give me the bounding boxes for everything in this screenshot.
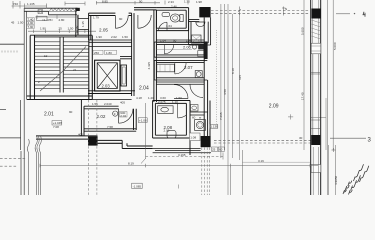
svg-text:1.79: 1.79 — [93, 16, 99, 20]
grid: line 3 callout right — [330, 137, 366, 139]
grid: dashed vertical pair through C2 — [88, 100, 97, 195]
corridor lower: walls y96-99.5 right of stairs — [92, 99, 131, 101]
dimension: vertical lines bottom middle — [230, 165, 232, 195]
svg-text:2.80: 2.80 — [59, 18, 65, 22]
svg-text:8.19: 8.19 — [128, 162, 134, 166]
column: C3 bottom-center (filled) — [201, 136, 211, 147]
wall: facade window band — [311, 43, 321, 54]
svg-text:1.98: 1.98 — [196, 0, 202, 4]
dimension: bottom line secondary y162.8 right — [242, 161, 310, 163]
svg-text:1.55: 1.55 — [92, 102, 98, 106]
svg-text:740: 740 — [13, 2, 18, 6]
grid: dashed horizontal lines top (grid row 4) — [211, 9, 310, 11]
wall: dark blob on top band — [76, 8, 80, 11]
room 2.02: top wall with door opening — [84, 106, 119, 109]
svg-text:1.90: 1.90 — [40, 27, 46, 31]
room 2.02: boxed label right of tag — [120, 112, 128, 118]
stairwell: bottom wall — [27, 96, 93, 100]
wall: corner step down at x122-127 — [122, 140, 127, 148]
room 2.02: bottom wall — [84, 129, 136, 131]
room 2.02: right wall — [134, 109, 137, 130]
room 2.08: door leaf+arc — [178, 103, 187, 118]
washer room: washing machine — [195, 120, 206, 131]
room 2.06: appliance box below — [198, 51, 204, 57]
wall: corridor right segment y40-42 x156-204 — [156, 40, 204, 42]
corridor: band below top rooms — [89, 40, 132, 42]
room 2.07: washer box — [195, 71, 202, 78]
corridor: lower line x88-131 — [89, 46, 132, 48]
svg-text:2.05: 2.05 — [99, 28, 108, 33]
stairwell: right wall — [89, 36, 93, 100]
svg-text:1.35: 1.35 — [81, 21, 85, 27]
stairs: treads right flight — [63, 42, 89, 89]
svg-text:1.35: 1.35 — [184, 0, 190, 3]
svg-text:1.08: 1.08 — [190, 135, 196, 139]
svg-text:21: 21 — [73, 68, 77, 72]
dimension: short top line y3.4 x65-85 — [65, 2, 85, 6]
bath (top): toilet — [170, 14, 180, 22]
wall: below 2.08 lines — [153, 149, 211, 153]
room 2.08: toilet — [167, 131, 176, 138]
svg-text:1.50: 1.50 — [68, 27, 74, 31]
wall: hatched insulation band x48-77 — [49, 9, 78, 12]
svg-text:8.85: 8.85 — [102, 0, 108, 3]
bath (top): outer walls — [156, 8, 188, 31]
svg-text:2.040: 2.040 — [104, 102, 112, 106]
small bath: shower tray — [192, 35, 202, 43]
column: C5 right (filled) — [311, 135, 320, 145]
svg-text:4.425: 4.425 — [147, 62, 151, 70]
svg-text:2.03: 2.03 — [102, 84, 111, 89]
svg-text:405: 405 — [78, 133, 83, 137]
room 2.08: outer walls — [153, 101, 190, 156]
room 2.06: counter line — [156, 49, 192, 51]
wall: facade window box bottom — [311, 165, 321, 173]
hall 2.04: right wall — [154, 10, 157, 102]
svg-text:1.50: 1.50 — [122, 35, 128, 39]
svg-text:7.08: 7.08 — [53, 125, 59, 129]
elevator 2.03: shaft outer walls — [95, 60, 120, 91]
wall: segment right of elevator top — [120, 57, 132, 59]
wall: top-left horizontal at y44.5 — [0, 43, 24, 45]
stairwell: top wall — [30, 35, 92, 37]
small bath (top-right): walls — [189, 17, 211, 45]
room 2.02: door leaf+arc — [119, 109, 133, 123]
wall: vertical x76-78 below top band — [76, 8, 78, 37]
svg-text:4.18: 4.18 — [136, 96, 142, 100]
svg-text:1.135: 1.135 — [27, 2, 35, 6]
room 2.01: boxed level +1.045 — [52, 121, 62, 125]
svg-text:2.01: 2.01 — [44, 112, 54, 118]
elevator: tiny boxed labels above — [93, 50, 103, 54]
dimension: ticks on bottom line — [40, 164, 310, 168]
room 2.05: door leaf+arc — [115, 16, 128, 29]
svg-text:=1.135=: =1.135= — [42, 18, 53, 22]
room 2.02: door tag circle — [113, 111, 118, 116]
svg-text:7.665: 7.665 — [219, 112, 223, 120]
wall: bottom exterior segment C — [122, 146, 152, 149]
annotation: tick right of box — [178, 185, 180, 189]
washer room (right of 2.08): walls — [190, 112, 208, 115]
wall: hatch ticks under y44.5 line — [2, 51, 17, 53]
svg-text:2.00: 2.00 — [164, 129, 170, 133]
stairwell: center divider — [60, 37, 63, 93]
svg-text:615: 615 — [238, 75, 242, 80]
annotation: small rect outline x36-47 y16-20.5 — [37, 16, 48, 20]
svg-text:90: 90 — [69, 110, 73, 114]
svg-text:2.33: 2.33 — [168, 0, 174, 4]
wall: bottom exterior segment B — [98, 140, 123, 143]
room 2.08: sink counter — [158, 106, 173, 114]
annotation: marker near x240 on dashed line — [238, 7, 241, 16]
wall: black segment in right wall — [204, 42, 207, 60]
grid: cross tick on right wall edge — [332, 148, 336, 152]
svg-text:25: 25 — [59, 27, 63, 31]
wall: bottom exterior segment A — [36, 136, 98, 139]
svg-text:7.58: 7.58 — [107, 125, 113, 129]
dimension: right-side vertical thin lines — [304, 0, 336, 195]
wall: between 2.01 and 2.02 — [81, 100, 84, 136]
wall: top-left exterior band y8-11.5 — [24, 8, 77, 15]
svg-text:405: 405 — [120, 101, 125, 105]
svg-text:2.02: 2.02 — [97, 114, 106, 119]
grid: line 4 callout top right — [336, 13, 350, 15]
svg-text:1.10: 1.10 — [172, 100, 178, 104]
column: C2 bottom-left (filled) — [88, 136, 98, 145]
svg-text:3.195: 3.195 — [178, 153, 186, 157]
svg-text:2.09: 2.09 — [269, 103, 279, 109]
corridor: door arcs lower right (to 2.07/2.08 hall) — [174, 85, 188, 99]
room 2.07: door leaf+arc — [175, 63, 186, 74]
wall: right wall of room block x204-208 — [204, 17, 210, 136]
wall: right facade outer lines — [311, 0, 321, 195]
svg-text:2.06: 2.06 — [183, 45, 192, 50]
hall 2.04: left wall — [132, 13, 134, 96]
annotation: boxed level in corridor — [138, 118, 147, 123]
grid: dashed vertical pair through C3 — [202, 148, 210, 196]
grid: section marker on dashed line — [282, 7, 286, 16]
svg-text:-1.085: -1.085 — [133, 184, 142, 188]
svg-text:1.50: 1.50 — [18, 21, 24, 25]
svg-text:25: 25 — [212, 148, 216, 152]
dimension: dashed dim line y156.5 with arrow — [146, 156, 224, 158]
wall: lower-left expansion joint wavy lines — [27, 139, 29, 195]
svg-text:1.80: 1.80 — [106, 51, 112, 55]
column: C4 top-right (filled) — [312, 9, 321, 19]
annotation: boxed level in 2.09 edge — [210, 124, 218, 128]
hall 2.04: entry door leaf+arc — [138, 15, 151, 28]
wall: left exterior vertical pair — [21, 8, 27, 195]
wall: facade infill hatch below C4 — [312, 20, 321, 39]
annotation: small x-box above wall — [38, 10, 43, 14]
room 2.07: walls — [154, 60, 207, 80]
dimension: top mid tick marks on y2.8 line — [165, 1, 188, 5]
svg-text:90: 90 — [139, 0, 143, 3]
hall 2.04: top wall y7.4-9.9 — [134, 8, 156, 10]
svg-text:17.40: 17.40 — [301, 92, 305, 100]
small bath: sink half-oval — [196, 22, 205, 27]
svg-text:45: 45 — [11, 21, 15, 25]
stairs: walk-line diagonal arrow — [40, 47, 86, 92]
svg-text:1.64: 1.64 — [166, 24, 172, 28]
room 2.06: walls — [154, 42, 206, 57]
bath (top): door arc — [159, 22, 168, 30]
dimension: long bottom line y165.5 — [40, 165, 318, 167]
room 2.07: counter rect — [157, 64, 175, 72]
wall: facade sill marks — [311, 72, 321, 128]
dimension: vertical thin lines in open area — [217, 4, 243, 195]
grid: dashed horizontal lines bottom (grid row 3) — [214, 139, 311, 141]
svg-text:60: 60 — [192, 116, 196, 120]
svg-text:4.9950: 4.9950 — [334, 175, 338, 185]
elevator: duct shaft right — [121, 65, 127, 86]
elevator: bottom corridor wall — [88, 91, 135, 94]
room 2.05: top boundary thin line — [96, 1, 160, 5]
room 2.05: left wall — [89, 13, 91, 40]
svg-text:5.600: 5.600 — [301, 27, 305, 35]
svg-text:250: 250 — [94, 51, 99, 55]
svg-text:2.075: 2.075 — [158, 100, 166, 104]
elevator 2.03: shaft inner face — [97, 63, 117, 89]
annotation: plus tick in open area — [288, 114, 293, 119]
annotation: small boxes below column C3 — [212, 147, 218, 152]
dashed: left edge tick — [0, 109, 6, 111]
annotation: boxed label bottom center — [132, 183, 143, 188]
stairwell: left wall — [30, 36, 34, 100]
column: C1 top (structural, filled) — [199, 7, 210, 17]
corridor: walls near y84 x156-204 — [156, 82, 204, 84]
room 2.06: door arc — [164, 44, 173, 53]
svg-text:4.50: 4.50 — [223, 89, 227, 95]
svg-text:2.02: 2.02 — [111, 35, 117, 39]
svg-text:2.46: 2.46 — [171, 4, 177, 8]
svg-text:1.90: 1.90 — [96, 35, 102, 39]
room 2.05: top wall y13-15.5 — [89, 13, 132, 15]
wall: facade inner mullion lines mid — [313, 54, 319, 135]
annotation: handwriting bottom right — [343, 164, 369, 194]
bath (top): sink — [162, 12, 170, 16]
svg-text:1.135: 1.135 — [210, 125, 218, 129]
svg-text:30: 30 — [299, 136, 303, 140]
dimension: stacked tiny boxed numbers left of stairs — [27, 18, 34, 29]
washer room: sink counter — [191, 105, 199, 111]
svg-text:90: 90 — [119, 17, 123, 21]
svg-text:N: N — [285, 7, 287, 11]
elevator 2.03: X cross — [97, 63, 117, 89]
svg-text:5.000: 5.000 — [333, 42, 337, 50]
dimension: thin line y31 across stair top — [28, 30, 96, 34]
stairs: treads left flight — [35, 42, 61, 89]
vestibule: lines between x78 and x88.6 — [78, 15, 89, 36]
svg-text:1.20: 1.20 — [148, 96, 154, 100]
dimension: top-left dim line y6 with ticks — [12, 1, 48, 9]
room 2.06: dark appliance box — [198, 45, 204, 50]
svg-text:2.04: 2.04 — [139, 86, 149, 92]
wall: facade lines below C5 — [313, 147, 318, 195]
dimension: text row y19-21 (1.135 / 2.80) — [35, 15, 78, 19]
room 2.06: sink circle — [192, 45, 196, 49]
annotation: small boxes left of C3 — [190, 133, 201, 141]
svg-text:8.10: 8.10 — [231, 68, 235, 74]
wall: left lower horizontal y138 — [0, 137, 21, 139]
svg-text:10: 10 — [44, 54, 48, 58]
svg-text:2.02: 2.02 — [120, 114, 126, 118]
svg-text:7.90: 7.90 — [28, 25, 34, 29]
dashed: bottom-left dashes — [0, 157, 27, 159]
